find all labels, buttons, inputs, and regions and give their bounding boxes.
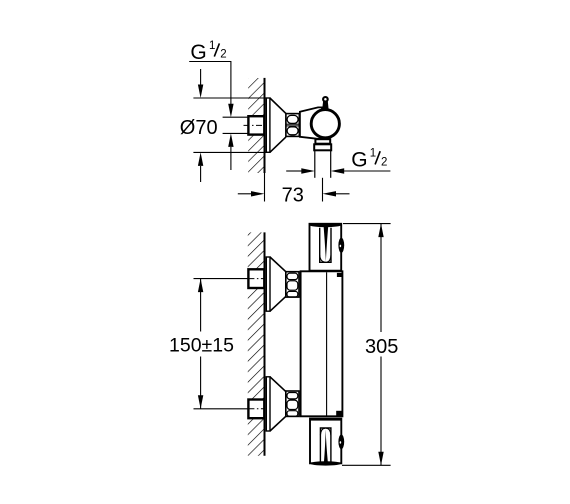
- supply thread bottom edge line: [223, 132, 249, 134]
- bottom handle grip groove: [320, 428, 331, 463]
- nipple (union nut, top view): [248, 116, 264, 134]
- escutcheon cone bottom slant: [270, 137, 286, 152]
- 150±15 down arrow: [198, 395, 203, 409]
- svg-text:1: 1: [209, 40, 215, 52]
- 73 left arrow (points right at wall): [251, 191, 265, 196]
- svg-text:G: G: [190, 41, 206, 64]
- top handle grip spike: [324, 226, 329, 261]
- thermostat knob stem: [322, 101, 328, 109]
- escutcheon cone small end: [285, 114, 287, 137]
- G1/2 top label underline: [189, 61, 231, 63]
- top handle: [310, 224, 342, 271]
- 305 down arrow: [378, 452, 383, 466]
- bottom escutcheon cone slants: [270, 377, 287, 392]
- 305 line lower segment: [380, 357, 382, 466]
- G1/2 up arrow below nipple: [228, 133, 233, 147]
- G1/2 right: left arrow tail: [286, 170, 301, 172]
- top escutcheon flange (bottom view): [266, 257, 270, 311]
- svg-text:2: 2: [220, 49, 226, 61]
- escutcheon flange (top view): [266, 98, 270, 152]
- valve body trapezoid (top view): [300, 107, 322, 138]
- top inlet dash-dot centre: [248, 278, 264, 280]
- svg-text:1: 1: [370, 148, 376, 160]
- hex nut middle lines: [286, 123, 299, 125]
- top hex nut cells: [287, 273, 298, 279]
- top handle grip groove: [320, 228, 331, 263]
- Ø70 up arrow tail: [200, 166, 202, 182]
- bottom handle bottom lens: [310, 461, 341, 465]
- Ø70 down arrow tail: [200, 69, 202, 85]
- outlet band 2: [314, 144, 331, 150]
- outlet band 1: [315, 139, 330, 144]
- G1/2 right: right arrow (points left at pipe): [331, 168, 345, 173]
- G1/2 up arrow tail: [230, 147, 232, 170]
- bottom escutcheon flange (bottom view): [266, 377, 270, 431]
- bottom inlet extension line: [194, 408, 249, 410]
- thermostat head circle: [311, 110, 339, 138]
- dimension Ø70 upper extension line: [193, 97, 268, 99]
- dimension 305 top extension line: [343, 223, 391, 225]
- bottom handle top band: [310, 418, 341, 420]
- 305 line upper segment: [380, 224, 382, 332]
- body top-right clip blob: [337, 273, 342, 277]
- 150±15 up arrow: [198, 279, 203, 293]
- svg-text:73: 73: [282, 185, 304, 207]
- hex nut bottom facet pill: [287, 127, 298, 135]
- nipple centre dash-dot line: [244, 124, 265, 126]
- thermostat knob cap: [323, 97, 328, 102]
- top inlet extension line: [194, 278, 249, 280]
- svg-text:305: 305: [365, 336, 398, 358]
- top escutcheon small end: [286, 272, 288, 296]
- bottom inlet dash-dot centre: [248, 408, 264, 410]
- bottom escutcheon small end: [286, 392, 288, 416]
- outlet pipe right edge: [330, 150, 332, 178]
- 150±15 line lower segment: [200, 357, 202, 409]
- body bottom-right clip blob: [336, 411, 342, 416]
- bottom hex nut cells: [287, 393, 298, 399]
- bottom handle side grip ellipse: [338, 435, 344, 450]
- top escutcheon cone slants: [270, 257, 287, 272]
- wall hatching (top view): [248, 78, 264, 173]
- bottom inlet nipple: [248, 400, 264, 419]
- Ø70 down arrow: [198, 85, 203, 99]
- G1/2 leader down arrow: [228, 104, 233, 118]
- Ø70 up arrow: [198, 152, 203, 166]
- outlet pipe centre extension: [322, 178, 324, 202]
- wall line (top view): [264, 78, 266, 173]
- top inlet nipple: [248, 269, 264, 288]
- supply thread top edge line: [223, 116, 249, 118]
- G1/2 right: left arrow (points right at pipe): [301, 168, 315, 173]
- bottom handle grip spike: [324, 429, 328, 462]
- hex nut (top view): [286, 114, 299, 137]
- dimension Ø70 lower extension line: [193, 151, 268, 153]
- bottom handle: [310, 419, 341, 464]
- mixer body bar: [301, 271, 343, 416]
- svg-text:2: 2: [381, 156, 387, 168]
- svg-text:G: G: [351, 149, 367, 172]
- 73 right tail: [336, 193, 350, 195]
- 305 bottom extension line: [342, 464, 391, 466]
- hex nut top facet pill: [287, 115, 298, 123]
- 73 right arrow (points left at pipe centre): [323, 191, 337, 196]
- G1/2 right: underline/tail: [344, 170, 390, 172]
- bottom hex nut (bottom view): [286, 391, 299, 416]
- dimension G1/2 top label: [214, 43, 219, 56]
- G1/2 leader vertical line: [230, 62, 232, 105]
- bottom handle grip top curves: [320, 428, 325, 435]
- escutcheon cone top slant: [270, 98, 286, 114]
- svg-text:Ø70: Ø70: [180, 117, 218, 139]
- dimension G1/2 right label: [375, 151, 380, 164]
- top handle side grip ellipse: [338, 238, 344, 253]
- top handle top lens: [310, 223, 342, 227]
- wall line (bottom view): [264, 232, 266, 455]
- top hex nut (bottom view): [286, 272, 299, 297]
- body inner highlight line: [326, 272, 328, 416]
- top handle grip bottom curves: [320, 255, 325, 262]
- wall hatching (bottom view): [248, 232, 265, 455]
- dimension 73: left tail: [238, 193, 251, 195]
- 305 up arrow: [378, 224, 383, 238]
- dimension 150±15 line upper segment: [200, 279, 202, 332]
- svg-text:150±15: 150±15: [169, 335, 234, 357]
- wall extension line for 73 dim: [264, 173, 266, 202]
- outlet pipe left edge: [314, 150, 316, 178]
